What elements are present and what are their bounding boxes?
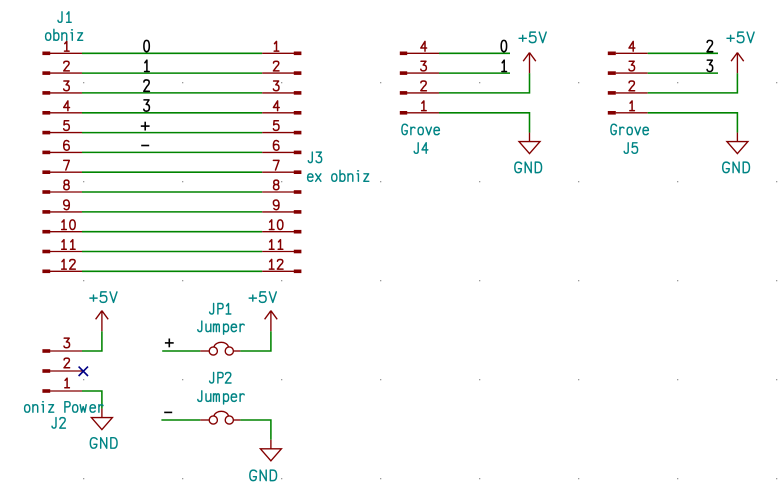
jumper JP2 body [200, 411, 240, 424]
no-connect X on J2 pin 2 [79, 367, 88, 376]
connector J3 pin 10 [262, 220, 301, 234]
wire JP2 pin 2 to GND [240, 420, 271, 440]
net label 3 [144, 100, 150, 111]
wire J4 pin 4 net 0 [439, 52, 510, 54]
wire J2 pin 1 to GND [82, 391, 102, 409]
+5V net text (J2) [90, 292, 117, 303]
connector J2 pin 1 [42, 378, 82, 393]
connector J1 pin 10 [42, 220, 82, 234]
jumper JP1 body [200, 342, 240, 355]
wire JP1 pin 2 to +5V [240, 331, 271, 351]
wire J1 pin 3 to J3 pin 3 [82, 92, 262, 94]
wire J5 pin 4 net 2 [648, 52, 718, 54]
wire J1 pin 10 to J3 pin 10 [82, 231, 262, 233]
connector J5 pin 4 [608, 41, 648, 55]
connector J3 reference [308, 152, 321, 163]
connector J3 pin 5 [262, 121, 301, 135]
net label 3 [707, 60, 713, 71]
connector J5 pin 3 [608, 61, 648, 75]
connector J4 pin 4 [400, 41, 439, 55]
connector J4 reference [414, 143, 428, 154]
wire J1 pin 4 to J3 pin 4 [82, 112, 262, 114]
wire - to JP2 pin 1 [161, 419, 200, 421]
connector J3 pin 3 [262, 81, 301, 95]
net label - (JP2) [164, 411, 172, 413]
connector J1 pin 2 [42, 61, 82, 75]
connector J5 value Grove [611, 124, 649, 135]
power symbol +5V (JP1) [265, 311, 278, 332]
power symbol +5V (J4) [523, 52, 536, 73]
wire J4 pin 1 to GND [439, 113, 530, 133]
connector J3 value ex obniz [308, 170, 369, 181]
connector J1 pin 9 [42, 200, 82, 214]
connector J3 pin 9 [262, 200, 301, 214]
wire J1 pin 12 to J3 pin 12 [82, 270, 262, 272]
net label 0 [501, 40, 506, 51]
net label + [141, 122, 150, 131]
connector J1 value obniz [46, 29, 83, 40]
connector J3 pin 2 [262, 61, 301, 75]
GND net text (J4) [515, 162, 542, 173]
connector J3 pin 11 [262, 240, 301, 254]
connector J1 pin 12 [42, 259, 82, 273]
wire J5 pin 2 to +5V [648, 73, 738, 93]
connector J5 reference [624, 143, 637, 154]
wire J1 pin 11 to J3 pin 11 [82, 251, 262, 253]
wire J1 pin 1 to J3 pin 1 [82, 52, 262, 54]
power symbol +5V (J5) [731, 52, 744, 73]
connector J2 pin 3 [42, 338, 82, 353]
connector J4 pin 1 [400, 101, 439, 115]
net label 0 [144, 40, 149, 51]
+5V net text (JP1) [249, 292, 276, 303]
wire J5 pin 3 net 3 [648, 72, 718, 74]
wire J2 pin 3 to +5V [82, 331, 102, 351]
power symbol GND (J4) [519, 133, 540, 154]
connector J5 pin 1 [608, 101, 648, 115]
connector J1 pin 7 [42, 160, 82, 174]
wire J4 pin 2 to +5V [439, 73, 530, 93]
wire + to JP1 pin 1 [162, 350, 200, 352]
connector J3 pin 7 [262, 160, 301, 174]
wire J1 pin 7 to J3 pin 7 [82, 171, 262, 173]
connector J3 pin 6 [262, 141, 301, 155]
connector J5 pin 2 [608, 81, 648, 95]
wire J1 pin 2 to J3 pin 2 [82, 72, 262, 74]
connector J1 pin 11 [42, 240, 82, 254]
connector J4 pin 2 [400, 81, 439, 95]
jumper JP2 value [198, 391, 244, 404]
net label 1 [145, 60, 150, 71]
connector J2 value oniz Power [25, 402, 103, 413]
wire J1 pin 5 to J3 pin 5 [82, 132, 262, 134]
connector J1 pin 8 [42, 180, 82, 194]
power symbol GND (J2) [91, 409, 112, 430]
power symbol +5V (J2) [96, 311, 109, 332]
+5V net text (J4) [519, 32, 546, 43]
connector J3 pin 12 [262, 259, 301, 273]
connector J1 pin 6 [42, 141, 82, 155]
connector J4 value Grove [402, 124, 440, 135]
net label - [141, 145, 149, 147]
wire J1 pin 8 to J3 pin 8 [82, 191, 262, 193]
wire J1 pin 9 to J3 pin 9 [82, 211, 262, 213]
jumper JP1 value [198, 321, 244, 334]
+5V net text (J5) [727, 32, 754, 43]
net label 2 [144, 80, 150, 91]
connector J2 pin 2 [42, 358, 82, 373]
jumper JP2 reference [210, 373, 231, 384]
wire J4 pin 3 net 1 [439, 72, 510, 74]
connector J1 pin 5 [42, 121, 82, 135]
connector J1 pin 4 [42, 101, 82, 115]
connector J1 pin 1 [42, 41, 82, 55]
power symbol GND (JP2) [260, 440, 281, 461]
net label 1 [502, 60, 507, 71]
net label + (JP1) [165, 339, 174, 348]
wire J1 pin 6 to J3 pin 6 [82, 151, 262, 153]
GND net text (J2) [90, 438, 117, 449]
wire J5 pin 1 to GND [648, 113, 738, 133]
connector J1 pin 3 [42, 81, 82, 95]
power symbol GND (J5) [727, 133, 748, 154]
connector J3 pin 4 [262, 101, 301, 115]
connector J2 reference [52, 418, 65, 429]
connector J3 pin 8 [262, 180, 301, 194]
connector J4 pin 3 [400, 61, 439, 75]
connector J3 pin 1 [262, 41, 301, 55]
jumper JP1 reference [210, 304, 231, 315]
GND net text (J5) [723, 162, 750, 173]
connector J1 reference [58, 12, 71, 22]
GND net text (JP2) [250, 470, 277, 481]
net label 2 [707, 40, 713, 51]
